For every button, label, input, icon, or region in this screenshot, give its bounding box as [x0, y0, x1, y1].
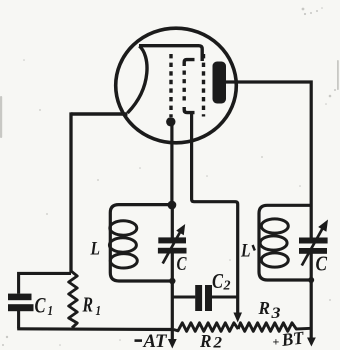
capacitor C2 [195, 285, 212, 311]
svg-text:C: C [35, 293, 46, 318]
wire: right vertical lower [310, 253, 313, 339]
svg-text:1: 1 [96, 304, 102, 319]
wire: C1 top link [19, 273, 71, 293]
svg-text:R: R [82, 293, 93, 317]
svg-text:1: 1 [48, 304, 54, 319]
wire: grid lead [192, 112, 238, 314]
node: junction dot at right tank bottom [308, 277, 314, 283]
plate (anode) [213, 62, 227, 104]
wire: tank right side lower / cathode line to bus [171, 253, 174, 340]
node: junction dot at tank top [168, 201, 177, 210]
label R2 [199, 331, 222, 350]
grid G1 (dashed) [169, 54, 172, 117]
node: junction dot at tank bottom [169, 278, 175, 284]
vacuum tube envelope [116, 28, 237, 143]
node -AT terminal arrow [168, 339, 177, 349]
wire: filament lead left [71, 112, 128, 116]
grid G3 (dashed) [202, 54, 205, 117]
label -AT [135, 331, 168, 350]
label L [90, 239, 100, 260]
label R1 [82, 293, 101, 320]
wire: C2 left stub [172, 295, 195, 298]
wire: left vertical [69, 112, 72, 272]
label R3 [258, 298, 281, 322]
wire: tank right side upper [171, 205, 174, 238]
wire: left tank loop [110, 205, 172, 281]
svg-text:BT: BT [280, 327, 306, 350]
wire: right tank loop [259, 205, 311, 280]
node +BT terminal arrow [307, 338, 316, 347]
svg-text:C: C [212, 269, 224, 293]
label L' [240, 241, 255, 262]
filament / cathode [128, 46, 203, 113]
svg-text:2: 2 [212, 335, 222, 350]
label C2 [212, 269, 231, 294]
wire: C2 right stub [212, 295, 239, 298]
resistor R1 (zigzag) [69, 271, 78, 328]
label C (right tank) [316, 252, 328, 276]
resistor R3 (zigzag) [238, 323, 311, 332]
svg-text:3: 3 [270, 305, 280, 322]
resistor R2 (zigzag) [174, 323, 239, 332]
label +BT [273, 327, 306, 350]
capacitor C (variable, left) [158, 224, 187, 264]
wiper arrow tap on R2/R3 [233, 313, 242, 323]
svg-text:R: R [258, 298, 270, 318]
svg-text:R: R [199, 331, 211, 350]
svg-text:AT: AT [143, 331, 168, 350]
capacitor C1 [8, 294, 34, 329]
grid G2 (dashed bracket) [184, 60, 194, 113]
wire: cathode lead down [170, 124, 173, 205]
label C1 [35, 293, 54, 320]
svg-text:C: C [316, 252, 328, 276]
svg-text:L: L [90, 239, 100, 260]
wire: plate lead [226, 82, 311, 238]
wire: bottom bus [17, 327, 173, 331]
node: cathode junction dot [166, 117, 175, 126]
svg-text:C: C [177, 253, 187, 275]
inductor L' [260, 219, 288, 267]
svg-text:+: + [273, 335, 280, 349]
svg-text:2: 2 [223, 279, 231, 294]
label C (left tank) [177, 253, 187, 275]
svg-text:L: L [240, 241, 250, 262]
inductor L [109, 221, 137, 268]
capacitor C (variable, right) [299, 220, 328, 266]
